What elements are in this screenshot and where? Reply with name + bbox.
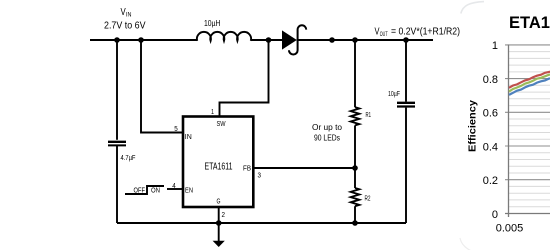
svg-text:IN: IN xyxy=(126,13,132,19)
svg-text:2.7V to 6V: 2.7V to 6V xyxy=(104,20,146,32)
svg-text:SW: SW xyxy=(217,121,226,128)
svg-text:0.6: 0.6 xyxy=(483,108,498,120)
svg-text:= 0.2V*(1+R1/R2): = 0.2V*(1+R1/R2) xyxy=(391,26,460,38)
svg-text:10µF: 10µF xyxy=(388,89,400,98)
svg-text:OFF: OFF xyxy=(134,188,146,195)
svg-text:5: 5 xyxy=(174,126,178,133)
svg-text:4: 4 xyxy=(172,183,176,190)
svg-text:V: V xyxy=(375,26,380,38)
svg-text:1: 1 xyxy=(211,109,214,116)
svg-text:90 LEDs: 90 LEDs xyxy=(314,134,340,143)
svg-text:0.8: 0.8 xyxy=(483,74,498,86)
svg-text:4.7µF: 4.7µF xyxy=(121,153,136,162)
svg-text:1: 1 xyxy=(492,40,498,52)
svg-text:R2: R2 xyxy=(365,196,371,203)
svg-text:3: 3 xyxy=(258,173,262,180)
svg-text:Or up to: Or up to xyxy=(312,123,343,132)
svg-text:2: 2 xyxy=(222,212,226,219)
svg-text:ETA16: ETA16 xyxy=(509,14,550,32)
svg-text:ETA1611: ETA1611 xyxy=(205,160,233,172)
svg-text:IN: IN xyxy=(185,134,192,141)
svg-text:Efficiency: Efficiency xyxy=(467,100,479,152)
svg-text:0.005: 0.005 xyxy=(496,223,524,235)
svg-text:EN: EN xyxy=(185,187,193,194)
svg-text:10µH: 10µH xyxy=(204,18,221,28)
svg-text:OUT: OUT xyxy=(380,32,388,38)
svg-text:FB: FB xyxy=(243,165,251,172)
svg-text:R1: R1 xyxy=(366,112,372,119)
svg-text:0.2: 0.2 xyxy=(483,175,498,187)
svg-text:0.4: 0.4 xyxy=(483,141,498,153)
svg-text:G: G xyxy=(217,199,221,206)
svg-text:ON: ON xyxy=(151,188,160,195)
svg-text:0: 0 xyxy=(492,209,498,221)
